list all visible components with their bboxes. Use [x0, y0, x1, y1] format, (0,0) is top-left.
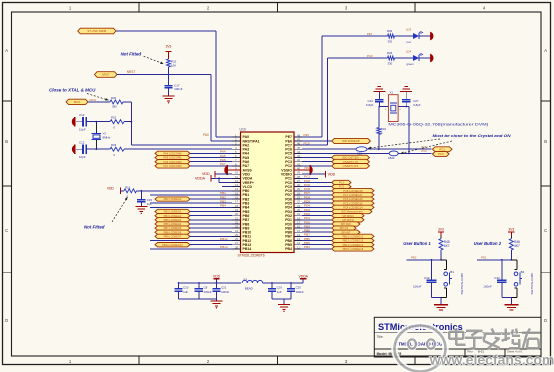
svg-text:R32: R32	[111, 116, 117, 120]
svg-text:B: B	[544, 139, 547, 144]
svg-text:PB15 LCDSEG15: PB15 LCDSEG15	[343, 247, 364, 251]
svg-text:1uF: 1uF	[277, 290, 282, 294]
svg-text:PB2 LCDSEG0: PB2 LCDSEG0	[164, 197, 182, 201]
svg-text:10K: 10K	[171, 63, 176, 67]
svg-text:8MHz: 8MHz	[103, 136, 111, 140]
svg-text:PC7 LCDSEG17: PC7 LCDSEG17	[343, 193, 363, 197]
svg-text:10pF: 10pF	[79, 155, 86, 159]
svg-text:SW PUSH-CM5: SW PUSH-CM5	[530, 273, 534, 295]
svg-text:380: 380	[112, 105, 117, 109]
svg-text:100nF: 100nF	[483, 285, 492, 289]
svg-text:User Button 1: User Button 1	[403, 241, 431, 246]
svg-text:SPI INT: SPI INT	[341, 230, 350, 234]
svg-text:3V3: 3V3	[438, 228, 444, 232]
svg-text:LD3: LD3	[406, 28, 412, 32]
svg-text:PC0: PC0	[422, 149, 428, 153]
svg-text:PB12: PB12	[220, 237, 228, 241]
svg-text:Close to XTAL & MCU: Close to XTAL & MCU	[49, 88, 96, 93]
svg-text:PB7 LCDSEG5: PB7 LCDSEG5	[164, 226, 182, 230]
svg-text:330: 330	[388, 62, 393, 66]
svg-text:PB14: PB14	[243, 247, 252, 251]
svg-text:VDD: VDD	[213, 274, 221, 278]
svg-text:VSS: VSS	[304, 167, 309, 170]
svg-text:VDDA: VDDA	[195, 176, 206, 180]
svg-text:PA7 LCDCOM3: PA7 LCDCOM3	[163, 164, 182, 168]
svg-text:3V3: 3V3	[508, 228, 514, 232]
svg-text:PC5 LCDSEG15: PC5 LCDSEG15	[343, 201, 363, 205]
svg-text:R30: R30	[111, 96, 117, 100]
svg-text:100nF: 100nF	[204, 290, 212, 294]
svg-text:PB4: PB4	[304, 245, 310, 249]
svg-text:Title:: Title:	[377, 335, 384, 339]
svg-text:L1: L1	[244, 277, 248, 281]
svg-text:28: 28	[235, 245, 239, 249]
svg-text:VDDA: VDDA	[298, 274, 308, 278]
svg-text:Not Fitted: Not Fitted	[84, 225, 105, 230]
svg-text:PC0: PC0	[438, 152, 444, 156]
svg-text:Must be close to the Crystal a: Must be close to the Crystal and ON	[433, 133, 511, 138]
svg-text:PB12 LCDSEG12: PB12 LCDSEG12	[343, 235, 364, 239]
svg-text:A: A	[544, 48, 547, 53]
svg-text:PB8 LCDSEG6: PB8 LCDSEG6	[164, 230, 182, 234]
svg-text:www.elecfans.com: www.elecfans.com	[429, 352, 554, 368]
svg-text:PC9: PC9	[367, 54, 373, 58]
svg-text:NRST: NRST	[127, 70, 136, 74]
svg-text:C: C	[544, 228, 547, 233]
svg-text:ST LINK SWIM: ST LINK SWIM	[87, 29, 107, 33]
svg-text:C13: C13	[79, 113, 85, 117]
svg-text:PA6 LCDCOM2: PA6 LCDCOM2	[163, 160, 182, 164]
svg-text:C32: C32	[424, 276, 430, 280]
svg-text:MC306-G-06Q-32.768(manufacture: MC306-G-06Q-32.768(manufacturer DVM)	[388, 123, 488, 127]
svg-text:B2: B2	[521, 270, 525, 274]
svg-text:D: D	[544, 318, 547, 323]
svg-text:SW PUSH-CM5: SW PUSH-CM5	[460, 273, 464, 295]
svg-text:6.8pF: 6.8pF	[366, 103, 374, 107]
svg-text:PB9 LCDSEG7: PB9 LCDSEG7	[164, 235, 182, 239]
svg-text:6.8pF: 6.8pF	[413, 103, 421, 107]
svg-text:PB10 LCDSEG10: PB10 LCDSEG10	[162, 243, 183, 247]
svg-text:C42: C42	[494, 276, 500, 280]
svg-text:PA0: PA0	[203, 133, 209, 137]
svg-text:USART1 RX: USART1 RX	[343, 164, 359, 168]
svg-text:R35: R35	[387, 51, 393, 55]
svg-text:PC9: PC9	[304, 141, 310, 145]
svg-text:SPI MOSI: SPI MOSI	[342, 218, 354, 222]
svg-text:C: C	[5, 228, 8, 233]
svg-text:PB3 LCDSEG1: PB3 LCDSEG1	[164, 210, 182, 214]
svg-text:VDD: VDD	[328, 172, 336, 176]
svg-text:R33: R33	[111, 143, 117, 147]
svg-text:R16: R16	[125, 186, 131, 190]
svg-text:User Button 2: User Button 2	[474, 241, 502, 246]
svg-text:NRST: NRST	[102, 73, 110, 77]
svg-text:IDD WAKEUP: IDD WAKEUP	[342, 139, 360, 143]
svg-text:11: 11	[297, 245, 300, 249]
svg-text:100nF: 100nF	[413, 285, 422, 289]
svg-text:PC1: PC1	[304, 175, 310, 179]
svg-text:100nF: 100nF	[221, 290, 229, 294]
svg-text:BEAD: BEAD	[245, 287, 253, 291]
svg-text:C12: C12	[79, 141, 85, 145]
svg-text:PA7: PA7	[220, 162, 226, 166]
svg-text:D: D	[5, 318, 8, 323]
svg-text:PB4: PB4	[220, 204, 226, 208]
svg-text:SB10: SB10	[388, 156, 395, 160]
svg-text:B1: B1	[450, 270, 454, 274]
svg-text:VDD: VDD	[107, 186, 114, 190]
svg-text:B: B	[5, 139, 8, 144]
svg-text:1uF: 1uF	[147, 202, 152, 206]
svg-text:PC8 LCDSEG18: PC8 LCDSEG18	[343, 189, 363, 193]
svg-text:red: red	[407, 40, 411, 44]
svg-text:330: 330	[388, 40, 393, 44]
svg-text:4K7: 4K7	[514, 244, 520, 248]
svg-text:LD4: LD4	[406, 50, 412, 54]
svg-text:X1: X1	[390, 91, 394, 95]
svg-text:PB4: PB4	[285, 247, 292, 251]
svg-text:U10: U10	[240, 127, 246, 131]
svg-text:100nF: 100nF	[174, 87, 183, 91]
svg-text:3V3: 3V3	[166, 45, 172, 49]
svg-text:green: green	[407, 62, 415, 66]
svg-text:10pF: 10pF	[79, 128, 86, 132]
svg-text:1uF: 1uF	[183, 290, 188, 294]
svg-text:PA4 LCDCOM0: PA4 LCDCOM0	[163, 152, 182, 156]
svg-text:MCO: MCO	[90, 98, 97, 102]
svg-text:PB14: PB14	[220, 245, 228, 249]
svg-text:Not Fitted: Not Fitted	[121, 51, 142, 56]
svg-text:R36: R36	[387, 29, 393, 33]
svg-text:PB5 LCDSEG3: PB5 LCDSEG3	[164, 218, 182, 222]
svg-text:A: A	[5, 48, 8, 53]
svg-text:IDD Measurement: IDD Measurement	[341, 210, 362, 214]
svg-text:PE7: PE7	[304, 133, 310, 137]
svg-text:PB1: PB1	[220, 191, 226, 195]
svg-text:PC3: PC3	[339, 185, 345, 189]
svg-text:PB14 LCDSEG14: PB14 LCDSEG14	[343, 243, 364, 247]
svg-text:MCO: MCO	[74, 100, 81, 104]
svg-text:4K7: 4K7	[444, 244, 450, 248]
svg-text:PE1: PE1	[481, 255, 487, 259]
svg-text:PE7: PE7	[367, 32, 373, 36]
svg-text:STM32L152RBT6: STM32L152RBT6	[238, 254, 265, 258]
svg-text:PC1: PC1	[439, 147, 445, 151]
svg-text:100nF: 100nF	[296, 290, 304, 294]
svg-text:SPI CS: SPI CS	[340, 226, 349, 230]
svg-text:PE0: PE0	[411, 255, 417, 259]
